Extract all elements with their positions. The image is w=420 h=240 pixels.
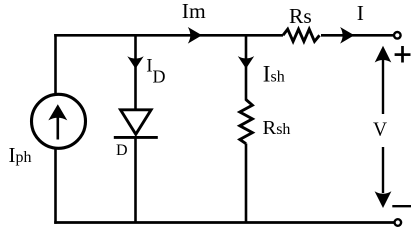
wire: top rail from Rs to output terminal: [321, 34, 393, 37]
diode D triangle: [121, 110, 152, 135]
current source arrow shaft: [56, 108, 59, 140]
plus sign: [395, 53, 411, 56]
wire: Rsh branch upper (top rail to Rsh): [245, 35, 248, 100]
svg-text:Im: Im: [182, 0, 206, 23]
wire: diode branch upper (top rail to diode): [134, 35, 137, 110]
svg-text:Rsh: Rsh: [263, 117, 291, 139]
V arrow upper segment with up arrowhead: [382, 60, 384, 114]
svg-text:V: V: [373, 119, 387, 140]
svg-text:D: D: [116, 142, 128, 159]
current source arrowhead (up): [48, 104, 67, 120]
resistor Rs zigzag (horizontal): [283, 29, 320, 41]
current source U1 circle: [32, 94, 86, 148]
arrowhead I (right) after Rs: [340, 27, 354, 44]
wire: bottom rail: [54, 221, 394, 224]
svg-text:Rs: Rs: [289, 4, 312, 28]
wire: Rsh branch lower (Rsh to bottom rail): [245, 144, 248, 223]
arrowhead Ish (down) on Rsh branch: [238, 56, 254, 69]
wire: top rail from left corner to Rs: [54, 34, 283, 37]
resistor Rsh zigzag (vertical): [240, 100, 253, 144]
arrowhead Im (right) on top rail: [188, 27, 202, 44]
wire: left rail lower (current source to bottom rail): [54, 149, 57, 224]
svg-text:D: D: [153, 67, 166, 87]
diode D cathode bar: [114, 136, 158, 139]
wire: diode branch lower (diode to bottom rail): [134, 137, 137, 222]
svg-text:I: I: [357, 1, 364, 25]
minus sign: [392, 205, 411, 207]
terminal circle bottom-right: [395, 219, 402, 226]
terminal circle top-right: [394, 32, 401, 39]
wire: left rail upper (top rail to current source): [54, 34, 57, 94]
arrowhead ID (down) on diode branch: [127, 56, 143, 69]
V arrow lower segment with down arrowhead: [382, 147, 384, 193]
